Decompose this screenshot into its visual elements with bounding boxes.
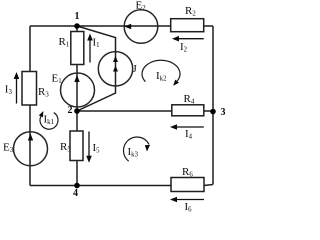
wire middle column node2-node4 (76, 111, 78, 186)
resistor R3 (22, 72, 37, 106)
svg-text:4: 4 (73, 188, 78, 199)
resistor R6 (171, 178, 204, 192)
current arrow I1 (87, 34, 93, 63)
svg-text:J: J (133, 63, 138, 75)
wire J branch diagonals and lead (77, 26, 116, 111)
resistor R2 (171, 19, 204, 32)
node 4 (74, 183, 80, 189)
current arrow I4 (170, 124, 204, 130)
EMF source E2 (124, 10, 158, 44)
current arrow I6 (170, 197, 204, 203)
wire top rail (30, 25, 213, 27)
node 1 (74, 23, 80, 29)
svg-text:2: 2 (68, 105, 73, 116)
loop arrow Ik1 (39, 111, 58, 129)
node 2 (74, 108, 80, 114)
current source J (98, 52, 132, 86)
wire left rail (29, 26, 31, 186)
current arrow I5 (86, 132, 92, 163)
EMF source E1 (61, 73, 95, 107)
loop arrow Ik2 (142, 60, 180, 85)
node 3 (210, 109, 216, 115)
resistor R5 (70, 131, 83, 161)
wire middle column node1-node2 (76, 26, 78, 111)
current arrow I2 (172, 36, 204, 42)
current arrow I3 (14, 72, 20, 104)
resistor R4 (172, 105, 204, 116)
wire right rail (212, 26, 214, 185)
loop arrow Ik3 (124, 137, 151, 161)
EMF source E3 (14, 132, 48, 166)
resistor R1 (71, 32, 84, 65)
svg-text:3: 3 (221, 107, 226, 118)
wire node2 to node3 (77, 110, 213, 112)
wire bottom rail (30, 185, 213, 186)
svg-text:1: 1 (75, 11, 80, 22)
